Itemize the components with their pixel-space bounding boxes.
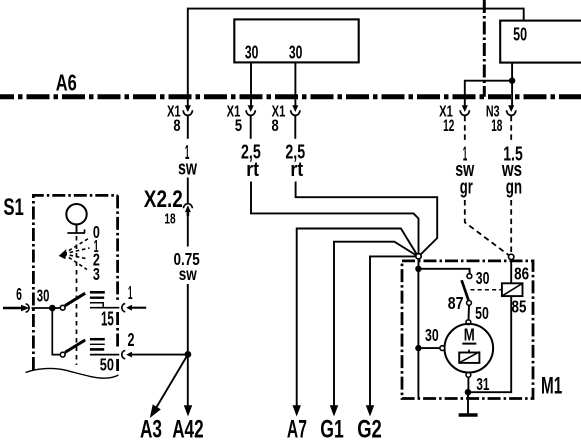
arrow A7: [293, 406, 301, 416]
pivot contact 1: [60, 305, 65, 310]
svg-text:86: 86: [514, 263, 529, 283]
motor terminal 30 left: [440, 346, 445, 351]
svg-text:30: 30: [425, 325, 439, 345]
arrow terminal 15: [127, 305, 132, 310]
arrow terminal 50: [127, 352, 132, 357]
svg-text:A42: A42: [172, 416, 203, 443]
svg-text:A7: A7: [287, 416, 307, 443]
wire from X1/8 up across to terminal 50 box: [188, 9, 524, 111]
wire branch to X1/12: [465, 81, 512, 106]
ground symbol: [467, 392, 469, 413]
wire 1 sw gr from X1/12 dashed: [464, 116, 466, 144]
svg-text:30: 30: [476, 268, 490, 288]
key position fan lines: [64, 238, 91, 254]
svg-text:1: 1: [128, 282, 133, 303]
junction dot: [509, 78, 515, 84]
starter motor M1 border: [402, 261, 533, 399]
arrow G2: [366, 406, 374, 416]
connector X1 pin 8: [272, 103, 300, 135]
connector N3 pin 18: [486, 103, 516, 135]
switch blade 1: [65, 293, 85, 306]
svg-text:A6: A6: [56, 69, 77, 95]
terminal 6 entry arrow: [3, 307, 22, 310]
wire coil 85 return to ground: [468, 296, 511, 392]
connector X1 pin 8: [167, 103, 192, 135]
motor terminal bottom: [466, 373, 471, 378]
wire to A7: [297, 229, 417, 407]
wire to G2: [370, 256, 416, 406]
arrow G1: [330, 406, 338, 416]
relay actuation dashed link: [471, 289, 502, 291]
svg-text:8: 8: [272, 117, 279, 135]
wire to G1: [334, 242, 416, 406]
svg-text:50: 50: [475, 303, 489, 323]
wire 2,5 rt from X1/8: [294, 116, 296, 139]
svg-text:30: 30: [289, 43, 303, 63]
svg-text:sw: sw: [178, 158, 197, 180]
node sleeve circle relay coil feed: [509, 254, 514, 259]
svg-text:gn: gn: [506, 177, 522, 199]
svg-text:87: 87: [448, 293, 464, 313]
ignition key circle: [66, 204, 86, 224]
arrow A42: [184, 406, 192, 416]
connector X2.2 pin 18: [184, 204, 193, 217]
cup terminal 50: [122, 350, 125, 358]
ground junction dot: [465, 389, 472, 396]
wire 87 to motor: [468, 305, 471, 320]
svg-text:8: 8: [173, 117, 180, 135]
motor rotor stub: [468, 350, 470, 353]
S1 torn bottom edge: [26, 368, 119, 378]
svg-text:rt: rt: [290, 159, 303, 181]
relay contact circle 30: [467, 274, 472, 279]
svg-text:6: 6: [16, 284, 22, 304]
svg-text:S1: S1: [3, 194, 24, 221]
switch blade 2: [65, 340, 85, 352]
pivot contact 2: [60, 352, 65, 357]
junction dot terminal 50 wire: [185, 351, 192, 358]
wire dot to contact 2: [52, 308, 60, 355]
wire to X2.2: [187, 178, 189, 204]
wire below X2.2: [187, 216, 189, 246]
wire fuse to X1/5: [250, 62, 252, 105]
wire to A42 junction: [131, 354, 188, 356]
svg-text:rt: rt: [246, 159, 259, 181]
contact pad 2: [90, 338, 105, 341]
key stem: [76, 224, 78, 233]
svg-text:18: 18: [164, 211, 175, 228]
svg-text:31: 31: [476, 374, 489, 394]
svg-text:50: 50: [513, 23, 527, 44]
wire M1 left vertical: [417, 269, 419, 399]
svg-text:sw: sw: [179, 264, 197, 284]
relay contact circle 87: [467, 301, 472, 306]
junction dot M1 feed: [415, 266, 421, 272]
svg-text:12: 12: [443, 117, 454, 135]
svg-text:50: 50: [100, 355, 114, 375]
fuse box 30 30: [234, 19, 358, 62]
wire to relay contact 30: [418, 269, 469, 274]
svg-text:5: 5: [235, 117, 242, 135]
cup terminal 15: [122, 304, 125, 312]
fan pivot arrowhead: [59, 250, 66, 259]
motor body: [445, 324, 494, 373]
motor rotor box: [459, 353, 479, 363]
connector X1 pin 12: [439, 103, 469, 135]
wire terminal 50: [90, 354, 119, 356]
svg-text:A3: A3: [140, 416, 162, 443]
junction dot motor 30: [415, 345, 421, 351]
node sleeve junction circle: [416, 254, 421, 259]
svg-text:30: 30: [245, 43, 259, 63]
wire node to M1: [418, 259, 420, 266]
svg-text:15: 15: [101, 309, 114, 331]
wire 30 internal: [32, 307, 61, 309]
wire 1 sw upper: [187, 116, 189, 139]
svg-text:X2.2: X2.2: [144, 186, 183, 213]
motor terminal top: [466, 320, 471, 325]
contact pad 1: [90, 291, 105, 294]
wire terminal 15: [90, 307, 119, 309]
svg-text:30: 30: [37, 286, 50, 306]
svg-text:G1: G1: [320, 416, 344, 443]
wire fuse 50 down to N3/18: [511, 63, 513, 106]
svg-text:18: 18: [491, 117, 502, 135]
wire 1.5 ws gn from N3/18 dashed: [510, 116, 512, 144]
junction dot switch 30: [49, 305, 56, 312]
wire down to A42 arrow: [187, 284, 189, 406]
wire fuse to X1/8: [294, 62, 296, 105]
svg-text:2: 2: [128, 329, 135, 350]
fuse box 50: [500, 21, 581, 63]
bus bar A6: [0, 94, 581, 99]
svg-text:3: 3: [93, 264, 100, 284]
arrow A3: [156, 354, 188, 407]
mechanical linkage dashed: [76, 236, 78, 365]
cup terminal 6: [26, 304, 29, 312]
relay coil: [502, 283, 523, 296]
wire 2,5 rt from X1/5: [250, 116, 252, 139]
svg-text:M: M: [464, 324, 475, 344]
svg-text:M1: M1: [541, 373, 562, 400]
module boundary dash-dot vertical: [483, 0, 486, 97]
switch S1 border: [33, 195, 117, 370]
svg-text:G2: G2: [357, 416, 382, 443]
svg-text:gr: gr: [460, 177, 473, 199]
wire coil feed: [510, 260, 512, 284]
relay blade: [462, 280, 469, 301]
svg-text:85: 85: [512, 296, 527, 316]
key tee bar: [67, 229, 85, 233]
connector X1 pin 5: [227, 103, 256, 135]
